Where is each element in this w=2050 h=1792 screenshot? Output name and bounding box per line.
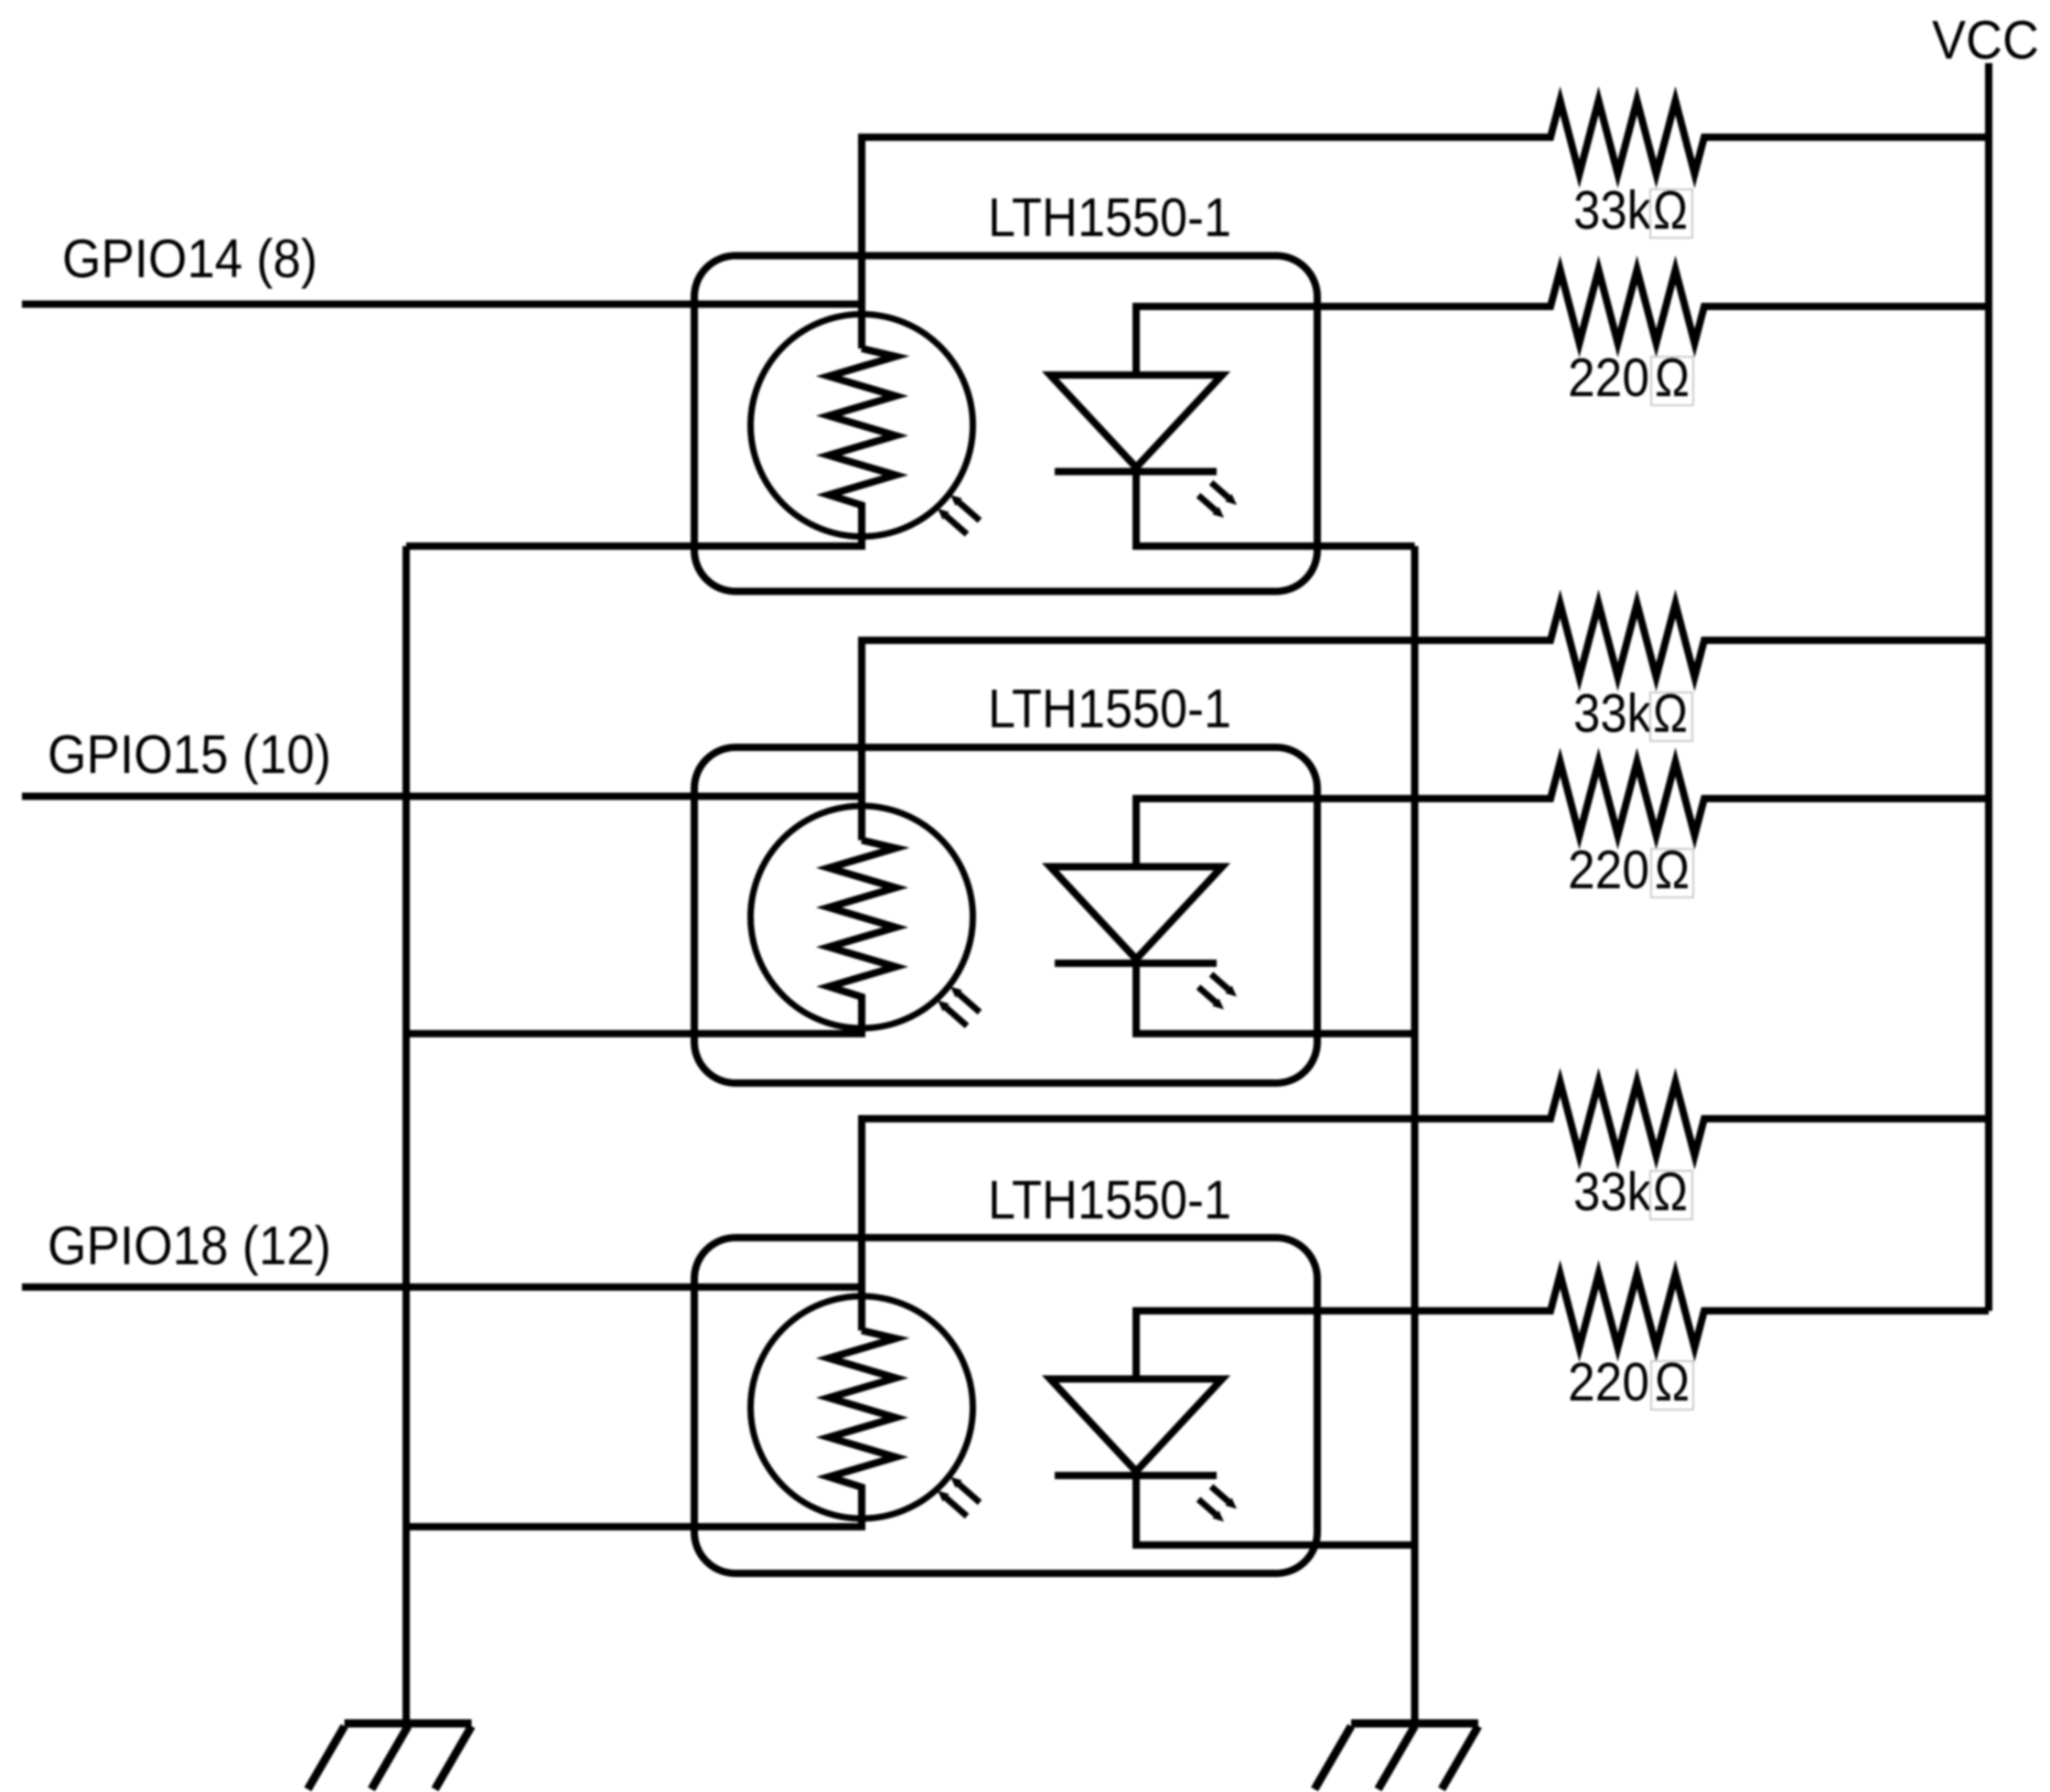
- svg-text:220: 220: [1568, 1352, 1649, 1412]
- svg-text:Ω: Ω: [1653, 1162, 1688, 1222]
- svg-text:220: 220: [1568, 840, 1649, 900]
- svg-text:Ω: Ω: [1653, 180, 1688, 241]
- svg-text:Ω: Ω: [1653, 683, 1688, 744]
- svg-text:LTH1550-1: LTH1550-1: [988, 679, 1231, 739]
- svg-text:VCC: VCC: [1932, 10, 2039, 70]
- svg-text:33k: 33k: [1573, 683, 1651, 744]
- svg-text:Ω: Ω: [1655, 348, 1690, 408]
- svg-text:GPIO18 (12): GPIO18 (12): [48, 1216, 331, 1276]
- svg-text:220: 220: [1568, 348, 1649, 408]
- svg-text:LTH1550-1: LTH1550-1: [988, 188, 1231, 248]
- svg-text:GPIO14 (8): GPIO14 (8): [62, 229, 317, 289]
- svg-text:Ω: Ω: [1655, 840, 1690, 900]
- svg-text:33k: 33k: [1573, 180, 1651, 241]
- svg-text:LTH1550-1: LTH1550-1: [988, 1170, 1231, 1230]
- svg-text:Ω: Ω: [1655, 1352, 1690, 1412]
- svg-text:33k: 33k: [1573, 1162, 1651, 1222]
- svg-text:GPIO15 (10): GPIO15 (10): [48, 724, 331, 785]
